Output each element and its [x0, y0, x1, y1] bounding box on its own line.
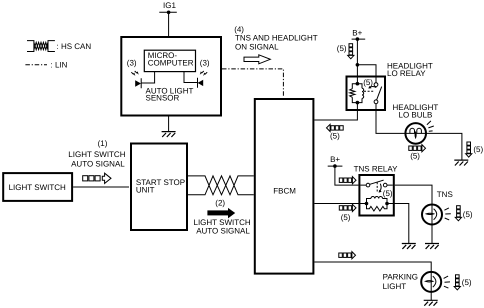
svg-text:(5): (5) [410, 152, 420, 161]
svg-text:(1): (1) [98, 139, 108, 148]
svg-text:B+: B+ [330, 155, 340, 164]
svg-text:(5): (5) [363, 78, 373, 87]
svg-text:IG1: IG1 [163, 1, 176, 10]
svg-text:TNS: TNS [437, 190, 453, 199]
svg-text:(5): (5) [337, 44, 347, 53]
svg-text:COMPUTER: COMPUTER [148, 59, 194, 68]
svg-text:UNIT: UNIT [136, 186, 155, 195]
svg-text:LO RELAY: LO RELAY [387, 69, 426, 78]
svg-text:TNS AND HEADLIGHT: TNS AND HEADLIGHT [235, 33, 318, 42]
svg-text:ON SIGNAL: ON SIGNAL [235, 43, 279, 52]
svg-text:AUTO SIGNAL: AUTO SIGNAL [196, 226, 250, 235]
svg-text:AUTO SIGNAL: AUTO SIGNAL [71, 160, 125, 169]
svg-text:(5): (5) [383, 189, 393, 198]
svg-text:FBCM: FBCM [273, 186, 296, 195]
svg-text:B+: B+ [352, 28, 362, 37]
svg-text:(2): (2) [215, 199, 225, 208]
svg-text:: HS CAN: : HS CAN [57, 42, 92, 51]
svg-text:LIGHT SWITCH: LIGHT SWITCH [68, 150, 125, 159]
svg-text:(5): (5) [463, 210, 473, 219]
svg-text:PARKING: PARKING [383, 273, 418, 282]
svg-text:: LIN: : LIN [51, 60, 68, 69]
svg-text:(5): (5) [341, 213, 351, 222]
svg-text:(3): (3) [127, 58, 137, 67]
svg-text:(3): (3) [200, 58, 210, 67]
svg-text:(5): (5) [462, 278, 472, 287]
svg-text:LIGHT SWITCH: LIGHT SWITCH [9, 183, 66, 192]
svg-text:LO BULB: LO BULB [399, 111, 433, 120]
svg-text:(5): (5) [330, 131, 340, 140]
svg-text:(5): (5) [473, 145, 483, 154]
svg-text:LIGHT: LIGHT [383, 282, 407, 291]
svg-text:SENSOR: SENSOR [146, 94, 180, 103]
svg-text:TNS RELAY: TNS RELAY [354, 165, 399, 174]
